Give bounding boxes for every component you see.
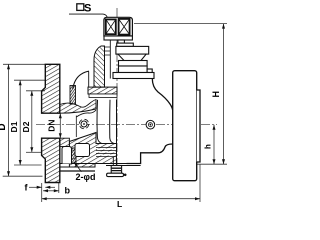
svg-text:h: h: [204, 144, 213, 149]
svg-text:D1: D1: [9, 121, 19, 132]
svg-text:L: L: [117, 199, 122, 208]
svg-text:2-φd: 2-φd: [76, 172, 96, 182]
svg-text:DN: DN: [47, 119, 57, 131]
svg-text:D2: D2: [21, 121, 31, 132]
svg-text:b: b: [65, 186, 71, 196]
svg-text:S: S: [84, 3, 91, 15]
svg-text:D: D: [0, 123, 8, 130]
svg-text:H: H: [211, 91, 221, 98]
